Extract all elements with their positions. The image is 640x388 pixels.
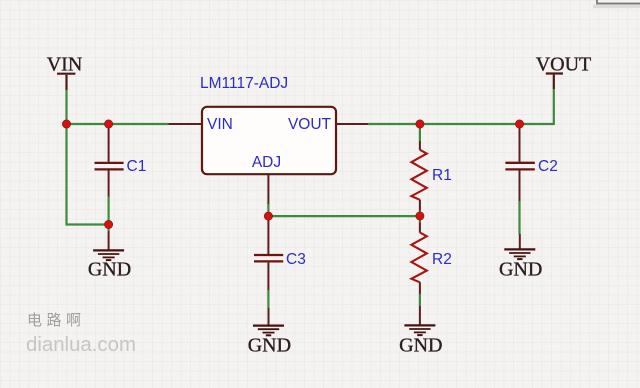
wire ADJ stub bbox=[267, 204, 269, 217]
wire R1 bottom stub bbox=[419, 211, 421, 217]
wire VIN horizontal to U1 bbox=[66, 123, 169, 125]
pin ADJ of U1 bbox=[252, 154, 281, 204]
pin VIN of U1 bbox=[169, 116, 233, 133]
regulator U1 LM1117-ADJ body bbox=[200, 75, 336, 174]
svg-text:GND: GND bbox=[499, 259, 542, 281]
capacitor C1 bbox=[95, 127, 147, 197]
ground GND2 (under C2) bbox=[499, 234, 542, 281]
svg-text:GND: GND bbox=[88, 259, 131, 281]
capacitor C3 bbox=[254, 219, 306, 291]
power port VOUT bbox=[536, 54, 592, 90]
wire C1 bottom bbox=[107, 197, 109, 225]
wire VIN vertical bbox=[65, 90, 67, 125]
wire C3 bottom bbox=[267, 290, 269, 309]
svg-text:LM1117-ADJ: LM1117-ADJ bbox=[200, 75, 288, 92]
wire VOUT vertical up bbox=[553, 89, 555, 125]
pin VOUT of U1 bbox=[288, 116, 368, 133]
wire left branch to C1 gnd node bbox=[66, 223, 109, 225]
junction node R1-R2 bbox=[416, 212, 424, 220]
svg-text:GND: GND bbox=[248, 335, 291, 357]
screen artifact box (top-right UI fragment) bbox=[593, 0, 640, 8]
wire ADJ horizontal bbox=[268, 215, 420, 217]
junction node VIN port bbox=[62, 120, 70, 128]
svg-text:dianlua.com: dianlua.com bbox=[26, 334, 136, 356]
svg-text:VOUT: VOUT bbox=[536, 54, 592, 76]
wire left branch down bbox=[65, 124, 67, 226]
wire R1 top stub bbox=[419, 124, 421, 141]
junction node C2 top bbox=[515, 120, 523, 128]
svg-text:电路啊: 电路啊 bbox=[27, 312, 86, 329]
ground GND3 (under C3) bbox=[248, 308, 291, 357]
junction node C1 top bbox=[105, 120, 113, 128]
svg-text:R1: R1 bbox=[432, 167, 452, 184]
junction node ADJ bbox=[264, 212, 272, 220]
power port VIN bbox=[47, 54, 83, 91]
svg-text:VIN: VIN bbox=[47, 54, 83, 76]
wire R2 top stub bbox=[419, 216, 421, 223]
svg-text:C2: C2 bbox=[538, 158, 558, 175]
junction node R1 top bbox=[416, 120, 424, 128]
svg-text:C3: C3 bbox=[286, 251, 306, 268]
capacitor C2 bbox=[505, 127, 557, 201]
svg-text:GND: GND bbox=[399, 335, 442, 357]
svg-text:C1: C1 bbox=[127, 158, 147, 175]
svg-text:R2: R2 bbox=[432, 251, 452, 268]
svg-text:VOUT: VOUT bbox=[288, 116, 332, 133]
wire R2 bottom bbox=[419, 294, 421, 306]
resistor R2 bbox=[411, 223, 451, 295]
svg-text:ADJ: ADJ bbox=[252, 154, 281, 171]
wire C1 node to gnd stub bbox=[107, 225, 109, 232]
ground GND1 (under C1) bbox=[88, 231, 131, 281]
watermark bbox=[26, 312, 136, 356]
resistor R1 bbox=[411, 141, 451, 211]
junction node C1 bottom bbox=[105, 220, 113, 228]
svg-text:VIN: VIN bbox=[207, 116, 233, 133]
ground GND4 (under R2) bbox=[399, 306, 442, 357]
wire VOUT horizontal bbox=[368, 123, 554, 125]
wire C2 bottom bbox=[518, 201, 520, 235]
